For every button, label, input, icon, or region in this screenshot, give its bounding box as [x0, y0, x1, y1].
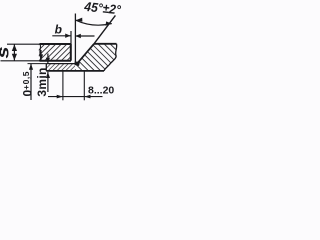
svg-text:b: b	[55, 23, 62, 37]
b dimension: extension of left plate edge up	[70, 31, 72, 44]
left plate right edge	[70, 44, 72, 61]
angle dimension arc	[76, 20, 112, 25]
b dimension left arrowhead	[65, 34, 70, 38]
8...20 right arrowhead	[84, 95, 90, 99]
lip bottom edge	[46, 70, 104, 72]
b dimension line left part with arrow	[52, 35, 70, 37]
8...20 dimension line	[48, 96, 103, 98]
3min upper arrow pointing down at lip top	[47, 54, 49, 64]
0+0,5 lower arrowhead	[29, 64, 33, 70]
root junction blob	[75, 62, 80, 66]
svg-text:0+0,5: 0+0,5	[21, 71, 35, 96]
0+0,5 upper arrow pointing down at plate bottom	[40, 50, 42, 60]
left plate (hatched body)	[39, 44, 71, 61]
angle arc left arrowhead	[76, 18, 83, 22]
svg-text:s: s	[0, 46, 13, 58]
s dimension lower arrowhead	[12, 54, 17, 61]
s dimension upper arrowhead	[12, 44, 17, 51]
angle arc right arrowhead	[105, 21, 112, 25]
left plate top edge	[40, 43, 71, 45]
b dimension: extension of root edge up	[74, 14, 76, 63]
8...20 left arrowhead	[57, 95, 63, 99]
b dimension line right part with arrow	[75, 35, 94, 37]
left plate bottom edge	[40, 60, 72, 62]
0+0,5 lower arrow pointing up at lip top	[30, 64, 32, 100]
svg-text:8...20: 8...20	[88, 85, 114, 97]
right piece lip left part (hatched other way)	[46, 64, 75, 71]
lip left end edge	[45, 64, 47, 71]
3min upper arrowhead	[46, 58, 50, 64]
right piece outline: bevel edge	[77, 44, 94, 64]
lip top edge	[46, 63, 77, 65]
angle dimension: bevel extension line	[94, 15, 115, 43]
0+0,5 dimension: lip-top extension line to the left	[28, 63, 47, 65]
3min lower arrowhead	[46, 72, 50, 78]
left plate break line (wavy left edge)	[40, 44, 41, 61]
right piece wavy break right edge	[104, 44, 117, 71]
svg-text:3min: 3min	[35, 67, 49, 96]
s dimension extension lines	[7, 43, 40, 45]
b dimension right arrowhead	[75, 34, 80, 38]
right piece top edge	[94, 43, 117, 45]
svg-text:45°±2°: 45°±2°	[83, 0, 122, 17]
8...20 dimension extension lines	[62, 72, 64, 101]
s dimension line	[13, 44, 15, 60]
0+0,5 upper arrowhead	[39, 54, 43, 60]
3min lower arrow pointing up at lip bottom	[47, 72, 49, 92]
right piece (hatched L-shaped body)	[75, 44, 117, 71]
